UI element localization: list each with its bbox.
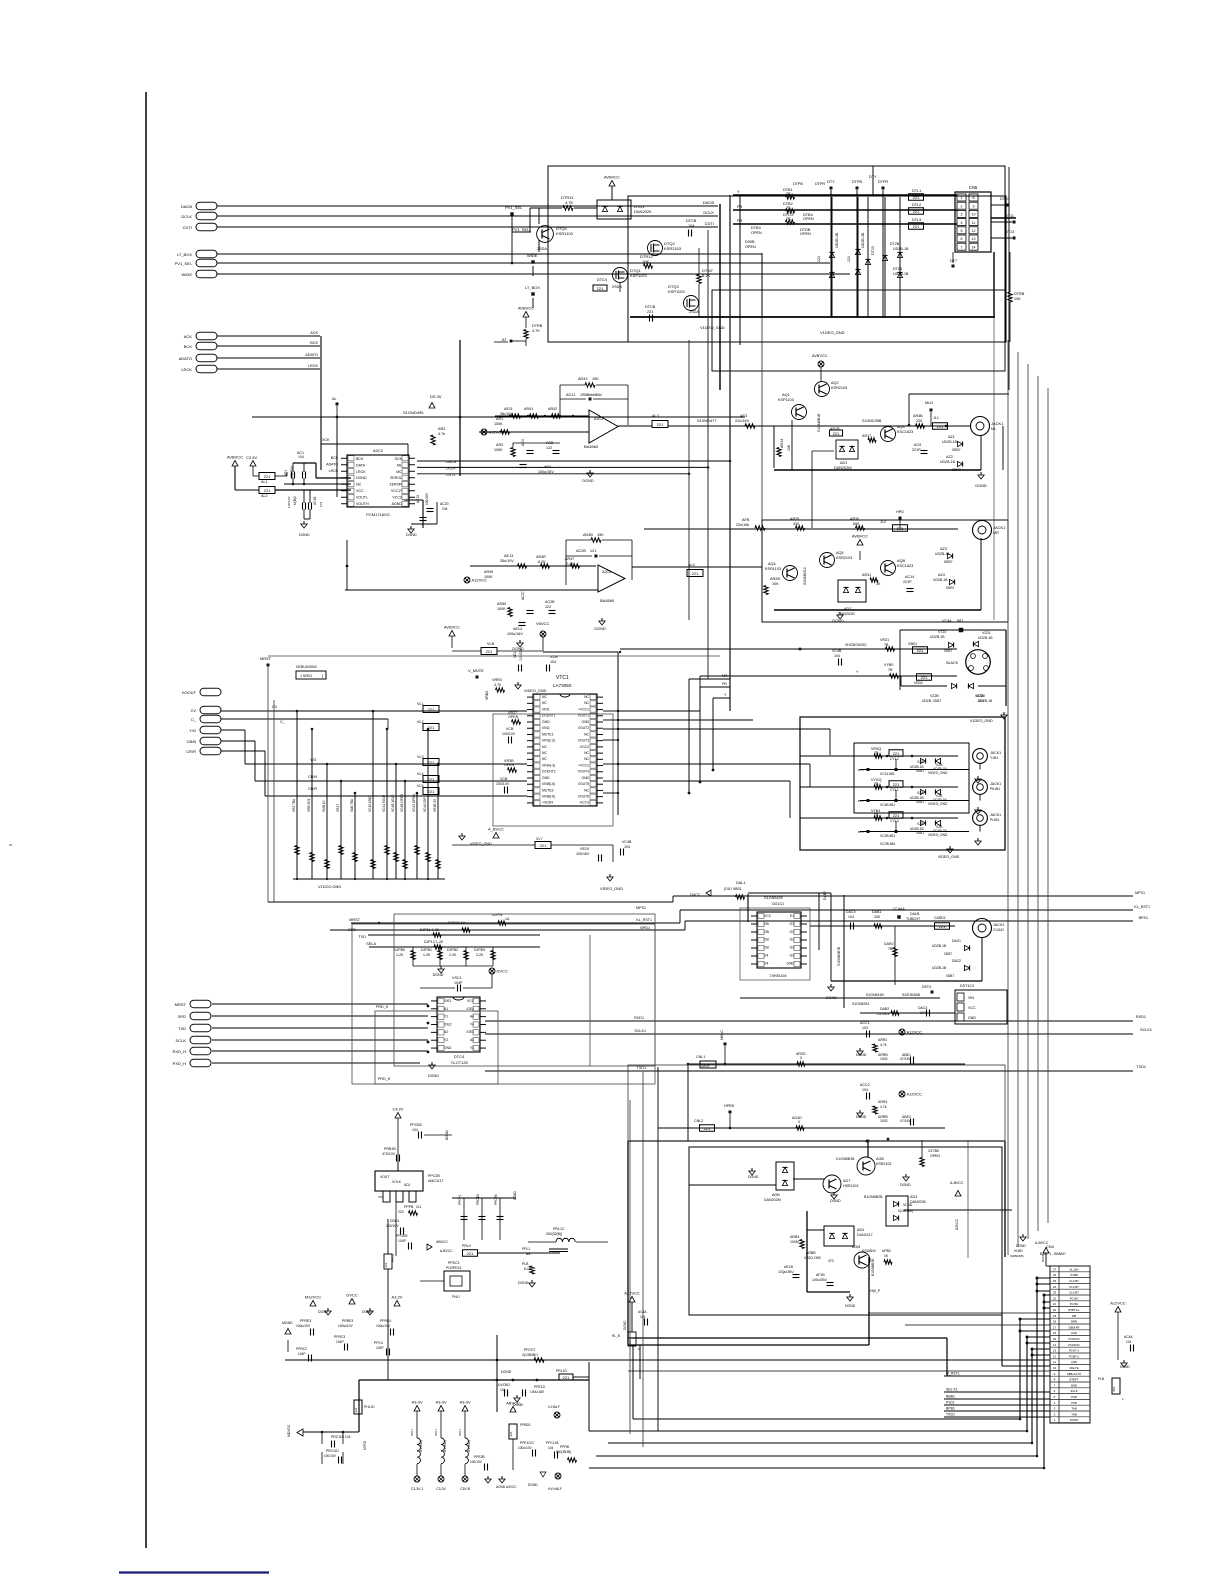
svg-text:DJP12 1-2K: DJP12 1-2K	[424, 940, 444, 944]
svg-text:VL3: VL3	[417, 755, 424, 759]
svg-text:27: 27	[1053, 1267, 1057, 1271]
svg-text:JACK1: JACK1	[990, 782, 1001, 786]
svg-text:CYL1: CYL1	[890, 788, 899, 792]
svg-text:AE3: AE3	[740, 414, 747, 418]
svg-text:104P: 104P	[336, 1340, 345, 1344]
svg-text:VRB2: VRB2	[485, 691, 489, 700]
svg-text:JACK1: JACK1	[993, 525, 1006, 530]
svg-text:6.2K: 6.2K	[702, 273, 711, 278]
svg-text:VINB(-6): VINB(-6)	[542, 782, 555, 786]
svg-text:5DB7: 5DB7	[944, 560, 953, 564]
svg-text:DGND: DGND	[594, 627, 605, 631]
svg-text:VC4B: VC4B	[622, 840, 632, 844]
svg-text:PXD_H: PXD_H	[173, 1061, 186, 1066]
svg-text:DDE4: DDE4	[390, 1219, 399, 1223]
svg-text:22: 22	[1053, 1296, 1057, 1300]
svg-text:A2C2: A2C2	[373, 448, 384, 453]
svg-text:AR42: AR42	[548, 407, 557, 411]
svg-text:SCLK1: SCLK1	[1140, 1028, 1152, 1032]
svg-text:CV: CV	[190, 708, 196, 713]
svg-text:221: 221	[467, 1251, 474, 1256]
svg-text:UDZB-1B: UDZB-1B	[930, 635, 945, 639]
svg-text:B-O: B-O	[858, 799, 864, 803]
svg-text:C3.3V: C3.3V	[246, 455, 257, 460]
svg-text:221: 221	[428, 707, 435, 712]
svg-text:CR/R: CR/R	[186, 749, 196, 754]
svg-text:CN5: CN5	[969, 185, 978, 190]
svg-text:221: 221	[939, 924, 946, 929]
svg-text:MGND: MGND	[282, 1321, 293, 1325]
svg-text:S1GND35B: S1GND35B	[862, 419, 882, 423]
svg-text:LRCK: LRCK	[329, 469, 339, 473]
svg-text:CC4AA: CC4AA	[893, 907, 905, 911]
svg-text:AR14: AR14	[780, 439, 784, 448]
svg-text:AQ5: AQ5	[836, 551, 844, 555]
svg-text:DBDH/R: DBDH/R	[1069, 1325, 1080, 1329]
svg-text:AE13: AE13	[504, 554, 513, 558]
svg-text:0DB7: 0DB7	[952, 448, 961, 452]
svg-text:VL1: VL1	[417, 702, 424, 706]
svg-text:DTL2: DTL2	[912, 203, 921, 207]
svg-text:C4.2V: C4.2V	[392, 1107, 403, 1112]
svg-text:AR2: AR2	[438, 427, 445, 431]
svg-text:NC: NC	[584, 695, 589, 699]
svg-text:V1DCO.GND: V1DCO.GND	[318, 884, 341, 889]
svg-text:100u/10V: 100u/10V	[376, 1324, 391, 1328]
svg-text:2SDA: 2SDA	[612, 285, 622, 289]
svg-text:CR/N: CR/N	[308, 775, 317, 779]
svg-text:DAB1: DAB1	[872, 910, 881, 914]
svg-text:S22HD4BB: S22HD4BB	[902, 993, 921, 997]
svg-text:MPS1: MPS1	[1135, 891, 1145, 895]
svg-text:1-2K: 1-2K	[396, 953, 404, 957]
svg-text:100w/10V: 100w/10V	[338, 1324, 353, 1328]
svg-text:221: 221	[486, 649, 493, 654]
svg-text:DJPB3: DJPB3	[474, 948, 485, 952]
svg-text:NC: NC	[542, 751, 547, 755]
svg-text:DT7: DT7	[950, 259, 957, 263]
svg-text:0(13B1B): 0(13B1B)	[419, 1440, 423, 1452]
svg-text:NC: NC	[542, 745, 547, 749]
svg-text:PPRC3: PPRC3	[334, 1335, 345, 1339]
svg-text:DGND: DGND	[900, 1183, 911, 1187]
svg-text:23: 23	[1053, 1291, 1057, 1295]
svg-text:UDZB-1B: UDZB-1B	[942, 440, 958, 444]
svg-text:AD4B: AD4B	[583, 533, 593, 537]
svg-text:VOLK: VOLK	[392, 1180, 402, 1184]
svg-text:1002: 1002	[880, 1057, 888, 1061]
svg-text:S1GNB0B7B: S1GNB0B7B	[837, 946, 841, 966]
svg-text:A3.2V: A3.2V	[392, 1295, 403, 1300]
svg-text:AC2B: AC2B	[545, 600, 555, 604]
svg-text:Y/G: Y/G	[189, 728, 196, 733]
svg-text:A2C4: A2C4	[594, 417, 603, 421]
svg-text:12: 12	[1053, 1354, 1057, 1358]
svg-text:ARB4: ARB4	[790, 1235, 799, 1239]
svg-text:104P: 104P	[298, 1352, 305, 1356]
svg-text:BLACK: BLACK	[946, 661, 958, 665]
svg-text:10Qu/2BV: 10Qu/2BV	[778, 1270, 794, 1274]
svg-text:AMC1117: AMC1117	[428, 1179, 443, 1183]
svg-text:0(1BD1B): 0(1BD1B)	[898, 1209, 913, 1213]
svg-text:Y3: Y3	[470, 1046, 474, 1050]
svg-text:VR1T: VR1T	[336, 804, 340, 812]
svg-text:DVCC: DVCC	[690, 893, 701, 897]
svg-text:RXD1: RXD1	[634, 1016, 644, 1020]
svg-text:104: 104	[624, 845, 630, 849]
svg-text:KSP1103: KSP1103	[778, 398, 794, 402]
svg-text:A3-3V: A3-3V	[411, 1400, 422, 1405]
svg-text:221: 221	[384, 1262, 388, 1267]
svg-text:AR4R: AR4R	[536, 555, 546, 559]
svg-text:THB: THB	[1071, 1412, 1077, 1416]
svg-text:PC BH: PC BH	[1070, 1296, 1079, 1300]
svg-text:A2AD: A2AD	[513, 1191, 517, 1200]
svg-text:4.7k: 4.7k	[880, 1105, 887, 1109]
svg-text:ABVCC: ABVCC	[436, 1240, 449, 1244]
svg-text:HPRD: HPRD	[724, 1104, 735, 1108]
svg-text:104: 104	[319, 502, 323, 507]
svg-text:AFB: AFB	[742, 518, 750, 522]
svg-text:1K: 1K	[876, 582, 881, 586]
svg-text:VZB: VZB	[917, 822, 924, 826]
svg-text:PPRB: PPRB	[560, 1445, 570, 1449]
svg-text:MRST: MRST	[260, 656, 272, 661]
svg-text:100K: 100K	[497, 607, 506, 611]
svg-text:47/16V: 47/16V	[900, 1119, 911, 1123]
svg-text:PPL?: PPL?	[434, 1428, 438, 1436]
svg-text:A3: A3	[470, 1038, 474, 1042]
svg-text:ACK: ACK	[184, 334, 193, 339]
svg-text:VCC: VCC	[968, 1006, 976, 1010]
svg-text:TUBCHT: TUBCHT	[906, 917, 921, 921]
svg-text:AR2B: AR2B	[770, 577, 780, 581]
svg-text:AD43: AD43	[578, 377, 588, 381]
svg-text:15K: 15K	[597, 533, 604, 537]
svg-text:18: 18	[1053, 1320, 1057, 1324]
svg-text:Pb1B1: Pb1B1	[990, 787, 1000, 791]
svg-text:PPE1D: PPE1D	[534, 1385, 546, 1389]
svg-text:AVBVCC: AVBVCC	[852, 534, 868, 539]
svg-text:AQ1: AQ1	[782, 393, 790, 397]
svg-text:AL3: AL3	[652, 414, 659, 418]
svg-text:VC2B 881: VC2B 881	[880, 842, 896, 846]
svg-text:DG1C1: DG1C1	[772, 902, 784, 906]
svg-text:100u/10V: 100u/10V	[296, 1324, 311, 1328]
svg-text:DVCC: DVCC	[346, 1293, 357, 1298]
svg-text:221: 221	[647, 310, 653, 314]
svg-text:DTPR: DTPR	[815, 182, 825, 186]
svg-text:KSC1623: KSC1623	[897, 564, 913, 568]
svg-text:VOUT3: VOUT3	[578, 739, 589, 743]
svg-text:PRB1B: PRB1B	[384, 1147, 396, 1151]
svg-text:D00B: D00B	[745, 240, 755, 244]
svg-text:104: 104	[298, 455, 304, 459]
svg-text:RL_B: RL_B	[612, 1334, 620, 1338]
svg-text:ZEROR: ZEROR	[389, 483, 402, 487]
svg-text:KSR1103: KSR1103	[765, 567, 781, 571]
svg-text:NC: NC	[356, 483, 362, 487]
svg-text:V-HALF: V-HALF	[548, 1405, 560, 1409]
svg-text:0(13B1B): 0(13B1B)	[443, 1440, 447, 1452]
svg-text:PB: PB	[737, 204, 743, 209]
svg-text:DAZ2: DAZ2	[952, 959, 961, 963]
svg-text:22u/16k: 22u/16k	[736, 523, 749, 527]
svg-text:XB01: XB01	[908, 642, 917, 646]
svg-text:BCK: BCK	[331, 456, 339, 460]
svg-text:AR31: AR31	[862, 573, 871, 577]
svg-text:100u/10V: 100u/10V	[518, 1446, 533, 1450]
svg-text:DGND: DGND	[428, 1074, 439, 1078]
svg-text:AC9: AC9	[914, 443, 921, 447]
svg-text:WB: WB	[1072, 1314, 1077, 1318]
svg-text:VSC1: VSC1	[452, 976, 462, 980]
svg-text:PPE2B: PPE2B	[474, 1455, 485, 1459]
svg-text:B-O: B-O	[858, 768, 864, 772]
svg-text:11: 11	[1053, 1360, 1056, 1364]
svg-text:PPCB0: PPCB0	[410, 1123, 422, 1127]
svg-text:SPD: SPD	[178, 1014, 186, 1019]
svg-text:PPRE3: PPRE3	[300, 1319, 311, 1323]
svg-text:DGND: DGND	[299, 533, 310, 537]
svg-text:000(3B3B): 000(3B3B)	[556, 1450, 571, 1454]
svg-text:A3VCC: A3VCC	[955, 1218, 959, 1230]
svg-text:DAZ1: DAZ1	[952, 939, 961, 943]
svg-text:ZEROL: ZEROL	[390, 476, 402, 480]
svg-text:104: 104	[862, 1026, 868, 1030]
svg-text:330: 330	[874, 915, 880, 919]
svg-text:+VCC2: +VCC2	[578, 763, 589, 767]
svg-text:SCLK1: SCLK1	[634, 1029, 646, 1033]
svg-text:VCB: VCB	[506, 727, 514, 731]
svg-text:PB: PB	[722, 682, 727, 686]
svg-text:VCB: VCB	[500, 777, 508, 781]
svg-text:PPC?4: PPC?4	[458, 1195, 462, 1205]
svg-text:VRB 5G1: VRB 5G1	[307, 798, 311, 812]
svg-text:MALTE: MALTE	[1069, 1366, 1078, 1370]
svg-text:A4: A4	[470, 1015, 474, 1019]
svg-text:PCBR U: PCBR U	[1069, 1354, 1080, 1358]
svg-text:10K: 10K	[642, 259, 649, 264]
svg-text:9: 9	[973, 204, 975, 208]
svg-text:AVBVCC: AVBVCC	[444, 625, 460, 630]
svg-text:CB/B: CB/B	[187, 739, 197, 744]
svg-text:JACK1: JACK1	[991, 421, 1004, 426]
svg-text:CLA BT: CLA BT	[1069, 1291, 1079, 1295]
svg-text:PVBB: PVBB	[1070, 1273, 1078, 1277]
svg-text:DB: DB	[764, 946, 769, 950]
svg-text:104: 104	[834, 654, 840, 658]
svg-text:WIDE: WIDE	[182, 272, 193, 277]
svg-text:KSR2103: KSR2103	[664, 246, 682, 251]
svg-text:Y/G: Y/G	[310, 758, 316, 762]
svg-text:VC4B 881: VC4B 881	[880, 803, 895, 807]
svg-text:TXD: TXD	[358, 935, 366, 939]
svg-text:DTPR: DTPR	[878, 180, 889, 184]
svg-text:GND: GND	[581, 776, 589, 780]
svg-text:GND: GND	[444, 1046, 452, 1050]
svg-text:OPEN: OPEN	[800, 232, 811, 236]
svg-text:ARR4: ARR4	[878, 1100, 887, 1104]
svg-text:DTB4: DTB4	[751, 226, 761, 230]
svg-text:PLB: PLB	[1098, 1377, 1104, 1381]
svg-text:S2GNB312: S2GNB312	[803, 567, 807, 585]
svg-text:DTRB: DTRB	[532, 324, 543, 328]
svg-text:100/16V: 100/16V	[576, 852, 590, 856]
svg-text:S1GN5429: S1GN5429	[764, 896, 783, 900]
svg-text:PRC11B 104: PRC11B 104	[331, 1435, 351, 1439]
svg-text:AGB: AGB	[772, 1193, 780, 1197]
svg-text:SCLK: SCLK	[1070, 1389, 1077, 1393]
svg-text:BCK: BCK	[356, 457, 364, 461]
svg-text:ADATO: ADATO	[326, 462, 338, 466]
svg-text:PRD_H: PRD_H	[378, 1077, 391, 1081]
svg-text:12: 12	[972, 229, 976, 233]
svg-text:AC2B: AC2B	[576, 549, 586, 553]
svg-text:TXD1: TXD1	[1136, 1065, 1146, 1069]
svg-text:VYB0: VYB0	[884, 663, 893, 667]
svg-text:220: 220	[398, 1210, 404, 1214]
svg-text:GND: GND	[581, 720, 589, 724]
svg-text:VIN: VIN	[968, 996, 974, 1000]
svg-text:PPC2B: PPC2B	[494, 1195, 498, 1205]
svg-text:UDZB- 0DB7: UDZB- 0DB7	[922, 699, 941, 703]
svg-text:PRD_H: PRD_H	[376, 1005, 389, 1009]
svg-text:2-2K: 2-2K	[476, 953, 484, 957]
svg-text:881: 881	[1112, 1386, 1116, 1391]
svg-text:OPEN: OPEN	[504, 763, 515, 767]
svg-text:221: 221	[921, 675, 928, 680]
svg-text:-VCC3: -VCC3	[579, 801, 589, 805]
svg-text:74-CT125: 74-CT125	[450, 1060, 467, 1065]
svg-text:100/10V: 100/10V	[287, 496, 291, 508]
svg-text:CCA/D: CCA/D	[993, 928, 1004, 932]
svg-text:K1GNBB1B: K1GNBB1B	[836, 1157, 855, 1161]
svg-text:221: 221	[893, 813, 900, 818]
svg-text:BRB: BRB	[1071, 1320, 1077, 1324]
svg-text:B1GNBB2B: B1GNBB2B	[864, 1195, 883, 1199]
svg-text:221: 221	[540, 843, 547, 848]
svg-text:AE14: AE14	[513, 627, 522, 631]
svg-text:10K: 10K	[787, 444, 791, 451]
svg-text:2L1: 2L1	[416, 1205, 422, 1209]
svg-text:D4: D4	[764, 961, 768, 965]
svg-text:104P: 104P	[376, 1346, 385, 1350]
svg-text:APB2: APB2	[882, 1249, 891, 1253]
svg-text:47/16V: 47/16V	[900, 1057, 911, 1061]
svg-text:BPS1: BPS1	[1139, 916, 1148, 920]
svg-text:A12VCC: A12VCC	[907, 1030, 923, 1035]
svg-text:PPL?: PPL?	[410, 1428, 414, 1436]
svg-text:VZ2B: VZ2B	[930, 694, 939, 698]
svg-text:DJPB1: DJPB1	[421, 948, 432, 952]
svg-text:BA4560: BA4560	[584, 444, 599, 449]
svg-text:PRL4: PRL4	[462, 1244, 471, 1248]
svg-text:AR1: AR1	[496, 417, 503, 421]
svg-text:NC: NC	[584, 701, 589, 705]
svg-text:104: 104	[412, 1128, 418, 1132]
svg-text:104P: 104P	[454, 981, 463, 985]
svg-text:1RBBbbbBBd: 1RBBbbbBBd	[580, 393, 602, 397]
svg-text:CR/R: CR/R	[308, 787, 317, 791]
svg-text:VINB(-6): VINB(-6)	[542, 795, 555, 799]
svg-text:0DB7: 0DB7	[944, 952, 952, 956]
svg-text:3: 3	[961, 213, 963, 217]
svg-text:Y4: Y4	[470, 1022, 474, 1026]
svg-text:PPL3: PPL3	[391, 1254, 395, 1262]
svg-text:25: 25	[1053, 1279, 1057, 1283]
svg-text:DAN202K: DAN202K	[634, 209, 652, 214]
svg-text:VIDEO_GND: VIDEO_GND	[524, 689, 547, 693]
svg-text:DST4: DST4	[922, 985, 931, 989]
svg-text:AE4: AE4	[544, 465, 551, 469]
svg-text:470/10V: 470/10V	[382, 1152, 396, 1156]
svg-text:VCC: VCC	[764, 914, 772, 918]
svg-text:Y2: Y2	[444, 1038, 448, 1042]
svg-text:AC14: AC14	[905, 575, 914, 579]
svg-text:0: 0	[800, 1056, 802, 1060]
svg-text:PNL?: PNL?	[452, 1295, 460, 1299]
svg-text:HSR1103: HSR1103	[843, 1184, 858, 1188]
svg-text:VL5: VL5	[417, 784, 424, 788]
svg-text:C3-3V: C3-3V	[436, 1487, 446, 1491]
svg-text:ABVCC: ABVCC	[506, 1401, 520, 1406]
svg-text:M_RST1: M_RST1	[946, 1372, 960, 1376]
svg-text:GND: GND	[968, 1016, 976, 1020]
svg-text:OPEN: OPEN	[803, 217, 814, 221]
svg-text:VC43 OPEN: VC43 OPEN	[412, 793, 416, 812]
svg-text:AR4B: AR4B	[913, 414, 923, 418]
svg-text:104: 104	[848, 915, 854, 919]
svg-text:221P: 221P	[903, 580, 912, 584]
svg-text:VR1B 33: VR1B 33	[433, 799, 437, 812]
svg-text:100M: 100M	[790, 1240, 799, 1244]
svg-text:AQ4: AQ4	[768, 562, 776, 566]
svg-text:O1: O1	[789, 922, 794, 926]
svg-text:DJPW: DJPW	[492, 913, 503, 917]
svg-text:UDZB-1B: UDZB-1B	[940, 460, 956, 464]
svg-text:KSR2103: KSR2103	[836, 556, 852, 560]
svg-text:A12VCC: A12VCC	[1110, 1301, 1126, 1306]
svg-text:GND: GND	[786, 961, 794, 965]
svg-text:E1: E1	[790, 914, 794, 918]
svg-text:AG7: AG7	[843, 1179, 850, 1183]
svg-text:221: 221	[563, 1375, 570, 1380]
svg-text:VC4B OPEN: VC4B OPEN	[400, 793, 404, 812]
svg-text:VIDEO_GND: VIDEO_GND	[928, 833, 948, 837]
svg-text:V1DEO_GND: V1DEO_GND	[700, 325, 725, 330]
svg-text:PV1_SEL: PV1_SEL	[505, 205, 523, 210]
svg-text:KSP1103: KSP1103	[630, 273, 647, 278]
svg-text:AD3: AD3	[910, 1195, 917, 1199]
svg-text:VZB: VZB	[917, 791, 924, 795]
svg-text:PRL1D: PRL1D	[556, 1369, 567, 1373]
svg-text:AE1B: AE1B	[784, 1265, 794, 1269]
svg-text:VOUT: VOUT	[380, 1175, 389, 1179]
svg-text:HW_P: HW_P	[870, 1289, 881, 1293]
svg-text:220: 220	[916, 419, 922, 423]
svg-text:JACK1: JACK1	[990, 813, 1001, 817]
svg-text:AC4A: AC4A	[1124, 1335, 1133, 1339]
svg-text:1A: 1A	[505, 917, 510, 921]
svg-text:M12VCC: M12VCC	[305, 1295, 321, 1300]
svg-text:VRR4: VRR4	[492, 678, 502, 682]
svg-text:DGND: DGND	[845, 1304, 856, 1308]
svg-text:11: 11	[972, 221, 976, 225]
svg-text:MRST: MRST	[349, 918, 360, 922]
svg-text:1: 1	[961, 196, 963, 200]
svg-text:DCLK: DCLK	[703, 210, 714, 215]
